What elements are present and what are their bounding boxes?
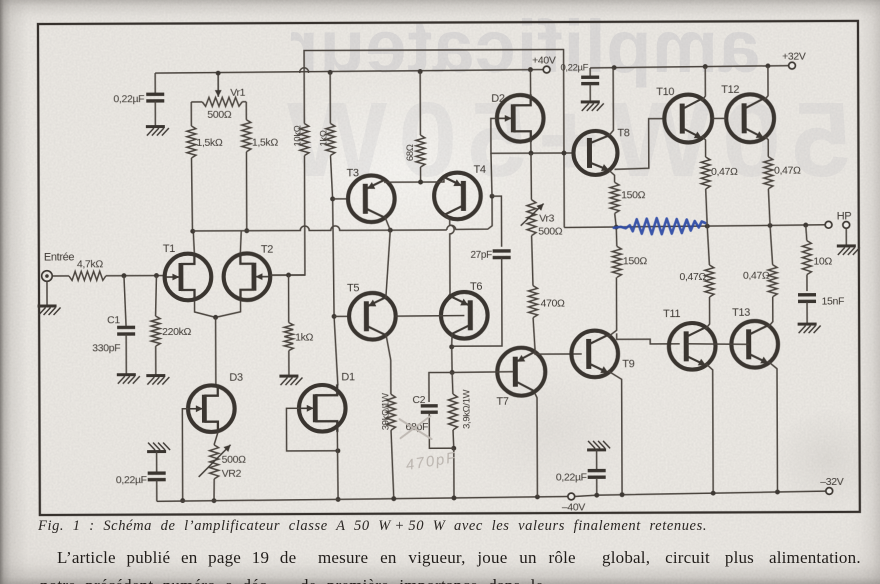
resistor 1,5k right	[245, 102, 247, 120]
node dot D2 source T8 base	[529, 151, 534, 156]
wire T7 collector right to T9 base	[535, 349, 582, 354]
transistor T7	[497, 348, 545, 396]
svg-text:+32V: +32V	[782, 51, 806, 63]
node dot 39k bottom rail	[391, 496, 396, 501]
resistor 10 ohm	[806, 225, 807, 241]
node dot T1 drain	[190, 229, 195, 234]
svg-text:C2: C2	[412, 394, 425, 406]
node dot 3,9k bottom	[451, 446, 456, 451]
node dot VR2 rail	[212, 498, 217, 503]
resistor 1k top	[329, 72, 331, 123]
svg-text:10Ω: 10Ω	[813, 255, 832, 267]
node dot T11 emitter rail	[711, 491, 716, 496]
wire T6 collector down	[451, 334, 453, 347]
capacitor 0,22uF top-right	[589, 68, 591, 76]
node dot D1 rail	[336, 497, 341, 502]
wire T1 T2 sources join	[195, 301, 216, 318]
node dot mid rail 150	[614, 225, 619, 230]
transistor D1	[299, 385, 346, 432]
resistor 150 lower	[612, 246, 621, 277]
wire T1 drain up	[193, 231, 194, 253]
svg-text:T11: T11	[663, 308, 680, 320]
transistor T3	[348, 175, 395, 222]
svg-text:0,22µF: 0,22µF	[560, 62, 588, 73]
resistor 0,47 lower right	[768, 297, 773, 327]
terminal +40V	[543, 66, 550, 73]
wire T4 base vertical from D2 gate node	[491, 153, 492, 196]
wire D1 gate loop	[286, 408, 337, 451]
wire T4 base node to 27pF to T6 collector	[492, 196, 502, 247]
transistor T11	[669, 323, 716, 370]
body text column 1	[57, 548, 296, 568]
resistor 0,47 upper right	[764, 136, 769, 157]
terminal HP	[843, 222, 850, 229]
ground below 0,22uF top-left	[146, 125, 165, 128]
wire T12 collector up	[763, 66, 768, 101]
svg-text:1kΩ: 1kΩ	[295, 331, 313, 343]
ground below C1	[117, 373, 136, 376]
node dot T9 emitter rail	[620, 492, 625, 497]
svg-text:D2: D2	[491, 93, 505, 105]
schematic border frame	[38, 21, 860, 515]
scan blotches	[745, 385, 880, 535]
svg-text:T5: T5	[347, 282, 359, 294]
transistor D3	[188, 385, 235, 432]
node dot 68ohm bottom	[418, 180, 423, 185]
wire T7 emitter down	[535, 393, 538, 497]
svg-text:500Ω: 500Ω	[222, 454, 247, 466]
resistor 0,47 lower left	[706, 297, 710, 329]
resistor 220k	[155, 276, 156, 317]
node dot 0,47 right pair mid rail	[768, 223, 773, 228]
wire D2 drain up	[529, 70, 531, 97]
svg-text:0,22µF: 0,22µF	[113, 93, 144, 105]
wire 1k to T3 base / T5 base / D1 string	[330, 155, 337, 385]
svg-text:1,5kΩ: 1,5kΩ	[196, 137, 222, 149]
capacitor 0,22uF top-left	[154, 73, 156, 93]
svg-text:0,47Ω: 0,47Ω	[774, 165, 801, 177]
svg-text:T9: T9	[622, 358, 634, 370]
node dot T6 collector 27pF join	[449, 344, 454, 349]
wire -32V bottom rail	[575, 491, 826, 496]
wire HP terminal to ground	[845, 228, 847, 244]
svg-text:0,22µF: 0,22µF	[556, 471, 587, 483]
ground below 220k	[146, 374, 165, 377]
node dot Vr1 wiper on rail	[216, 71, 221, 76]
wire T3 collector down	[385, 217, 390, 231]
terminal -32V	[826, 488, 833, 495]
wire -40V bottom rail	[157, 497, 568, 502]
ground below 1k mid	[279, 375, 298, 378]
node dot 0,47 left pair mid rail	[705, 224, 710, 229]
wire long horizontal y=230 with hops	[193, 225, 447, 230]
transistor T8	[573, 131, 617, 175]
wire T7 base from C2 node	[452, 371, 513, 374]
ground below 15nF	[798, 323, 817, 326]
wire +32V rail y=67.5	[590, 66, 788, 68]
svg-text:3,9kΩ/1W: 3,9kΩ/1W	[461, 389, 472, 429]
resistor 150 upper	[610, 182, 619, 213]
wire D2 gate down to T8 base line	[491, 118, 574, 153]
svg-text:–32V: –32V	[820, 476, 844, 488]
wire T4 collector down to T6 emitter with hop	[444, 214, 454, 300]
node dot T10 collector rail	[703, 64, 708, 69]
potentiometer Vr3 500ohm	[530, 153, 532, 200]
ground below 0,22uF top-right	[581, 100, 600, 103]
svg-text:T6: T6	[470, 281, 482, 293]
svg-text:Vr3: Vr3	[539, 213, 554, 225]
resistor 39k/1W	[386, 394, 395, 430]
resistor 4,7k input	[52, 275, 68, 277]
terminal +32V	[789, 62, 796, 69]
svg-text:0,47Ω: 0,47Ω	[679, 271, 706, 283]
hop on +40V rail over 10k wire	[299, 68, 309, 73]
node dot T13 emitter rail	[775, 490, 780, 495]
transistor T6	[441, 292, 488, 339]
svg-text:T13: T13	[732, 307, 750, 319]
svg-text:150Ω: 150Ω	[621, 189, 646, 201]
svg-text:500Ω: 500Ω	[207, 109, 232, 121]
wire +40V rail y=72	[155, 70, 534, 73]
svg-text:4,7kΩ: 4,7kΩ	[77, 258, 103, 270]
resistor 10k	[300, 124, 309, 156]
capacitor 0,22uF bottom-right	[596, 450, 598, 470]
svg-text:C1: C1	[107, 314, 120, 326]
wire T11 emitter down	[706, 364, 713, 493]
wire T9 collector to T11 base	[617, 333, 680, 344]
transistor T4	[434, 173, 481, 220]
node dot 10 ohm mid rail	[803, 223, 808, 228]
svg-text:470Ω: 470Ω	[541, 298, 566, 310]
svg-text:T7: T7	[496, 396, 508, 408]
wire D1 source down to rail	[336, 431, 339, 500]
terminal -40V	[568, 493, 575, 500]
bleed-through mirrored second line	[276, 80, 851, 201]
potentiometer VR2 500ohm	[214, 432, 218, 445]
capacitor C2 68pF	[429, 372, 452, 402]
body text column 2	[318, 548, 576, 568]
transistor T12	[726, 94, 774, 142]
node dot 220k tap	[154, 273, 159, 278]
ground above 0,22uF bottom-left	[147, 450, 166, 453]
ground above 0,22uF bottom-right	[587, 448, 606, 451]
potentiometer Vr1 500ohm	[191, 101, 202, 103]
svg-text:VR2: VR2	[222, 468, 242, 480]
wire D2 source down	[530, 141, 532, 154]
node dot T7 emitter rail	[535, 494, 540, 499]
node dot feedback crossing T8 base	[562, 151, 567, 156]
wire T6c node down to C2 node	[451, 347, 453, 373]
wire T2 gate to 10k	[270, 274, 304, 276]
wire T3-T4 top tie	[385, 178, 444, 182]
svg-text:T3: T3	[347, 167, 359, 179]
svg-text:D1: D1	[341, 371, 355, 383]
wire T9 emitter down	[608, 371, 622, 493]
node dot D1 source loop	[335, 448, 340, 453]
node dot cap bottom-right rail	[594, 493, 599, 498]
svg-text:D3: D3	[229, 372, 243, 384]
svg-text:T2: T2	[261, 244, 273, 256]
wire T10 collector up	[702, 67, 706, 102]
wire T13 emitter down	[768, 362, 777, 492]
svg-text:68Ω: 68Ω	[405, 144, 416, 161]
node dot T2 drain	[244, 228, 249, 233]
svg-text:+40V: +40V	[532, 55, 556, 67]
svg-text:39kΩ/1W: 39kΩ/1W	[380, 393, 391, 430]
wire feedback rail y=50	[304, 50, 564, 229]
svg-text:150Ω: 150Ω	[623, 255, 648, 267]
wire T11-T13 base tie	[687, 343, 749, 346]
svg-text:0,47Ω: 0,47Ω	[711, 166, 738, 178]
node dot 68ohm top	[418, 69, 423, 74]
resistor 1k mid	[288, 275, 290, 322]
wire T8 emitter node	[609, 170, 615, 182]
input connector terminal	[42, 271, 53, 282]
transistor T9	[571, 331, 618, 378]
capacitor C1 330pF	[124, 276, 126, 328]
wire output mid rail y=227	[564, 225, 825, 228]
svg-text:T8: T8	[617, 127, 629, 139]
wire T9 collector up to 150 lower	[608, 277, 617, 336]
svg-text:330pF: 330pF	[92, 342, 120, 354]
wire D3 gate to bottom rail	[182, 409, 188, 501]
wire T6 base line from T5	[396, 315, 465, 318]
transistor D2	[497, 95, 544, 142]
node dot T3 emitter junction y=230	[388, 228, 393, 233]
wire T12 base stub	[712, 117, 726, 119]
svg-text:470pF: 470pF	[405, 449, 459, 474]
svg-text:500Ω: 500Ω	[538, 226, 563, 238]
node dot D2 drain	[528, 67, 533, 72]
wire T8 collector up	[609, 68, 614, 136]
blue pen scribble on output rail	[614, 218, 706, 234]
wire source join down to D3	[215, 317, 217, 384]
caption Fig. 1	[38, 518, 858, 535]
svg-text:10kΩ: 10kΩ	[292, 125, 303, 146]
node dot T4 base node	[490, 194, 495, 199]
svg-text:T12: T12	[721, 84, 739, 96]
svg-text:0,47Ω: 0,47Ω	[743, 270, 770, 282]
svg-text:220kΩ: 220kΩ	[162, 326, 191, 338]
ground below input	[38, 304, 57, 307]
node dot 1k top	[328, 70, 333, 75]
svg-text:T1: T1	[163, 243, 175, 255]
resistor 3,9k/1W	[451, 372, 454, 394]
body text column 3	[602, 548, 861, 568]
capacitor 0,22uF bottom-left	[156, 452, 158, 473]
svg-text:Vr1: Vr1	[230, 87, 245, 99]
wire T2 drain up	[240, 231, 241, 253]
svg-text:1,5kΩ: 1,5kΩ	[252, 137, 278, 149]
node dot 1k mid top	[286, 273, 291, 278]
resistor 68 ohm	[416, 135, 425, 167]
capacitor 15nF	[806, 275, 808, 291]
svg-text:15nF: 15nF	[822, 295, 845, 307]
transistor T1	[165, 254, 212, 301]
wire input to ground	[46, 282, 48, 305]
node dot D3 gate rail	[180, 498, 185, 503]
wire T5 collector down to 39k	[386, 334, 391, 394]
node dot T1 T2 source join	[213, 315, 218, 320]
svg-text:1kΩ: 1kΩ	[318, 130, 329, 146]
svg-text:HP: HP	[837, 210, 852, 222]
resistor 470 ohm	[532, 236, 533, 286]
svg-text:–40V: –40V	[562, 501, 586, 513]
svg-text:T4: T4	[474, 164, 486, 176]
svg-text:0,22µF: 0,22µF	[116, 474, 147, 486]
ground below HP	[837, 244, 856, 247]
resistor 1,5k left	[190, 102, 192, 126]
terminal output HP wire end	[825, 221, 832, 228]
svg-text:T10: T10	[656, 86, 674, 98]
node dot T5 base	[332, 314, 337, 319]
transistor T2	[224, 253, 271, 300]
transistor T5	[349, 293, 396, 340]
node dot T8 collector rail	[612, 65, 617, 70]
transistor T13	[731, 321, 778, 368]
bleed-through mirrored headline from reverse page	[289, 4, 760, 89]
node dot C1 tap	[121, 273, 126, 278]
node dot T3 base	[330, 196, 335, 201]
node dot 3,9k bottom rail	[452, 495, 457, 500]
node dot C2 / T7 base node	[450, 370, 455, 375]
resistor 0,47 upper left	[702, 136, 706, 157]
node dot T12 collector rail	[765, 63, 770, 68]
svg-text:27pF: 27pF	[470, 250, 492, 261]
wire T5 emitter up	[386, 230, 391, 298]
svg-text:Entrée: Entrée	[44, 251, 75, 263]
pencil X crossing out 68pF	[399, 416, 431, 439]
transistor T10	[664, 95, 712, 143]
